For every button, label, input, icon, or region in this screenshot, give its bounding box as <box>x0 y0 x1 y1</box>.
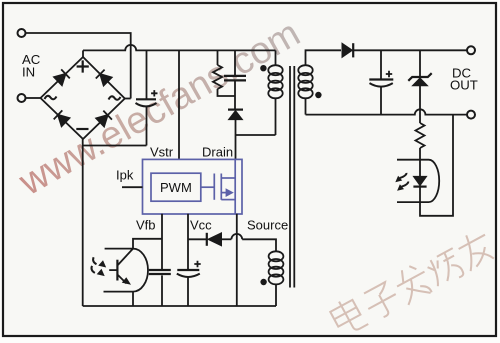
Vfb cap C4 plates <box>149 270 171 274</box>
Vcc pin wire <box>187 214 189 306</box>
plus sign in bridge <box>77 60 89 72</box>
snubber capacitor C2 plates <box>224 76 246 81</box>
wire cap C1 to return <box>146 106 148 146</box>
Source pin wire <box>236 214 238 306</box>
bridge diode D-TR <box>96 70 112 86</box>
opto LED housing <box>397 160 439 202</box>
PWM IC box U1 <box>143 159 243 214</box>
drain node wire to primary bottom <box>236 134 276 136</box>
bridge diode D-BL <box>54 110 70 126</box>
wire C3 to bottom rail <box>380 86 382 114</box>
Vcc cap C5 curved plate <box>177 274 200 277</box>
svg-text:PWM: PWM <box>160 180 192 195</box>
opto input light arrows <box>92 257 107 276</box>
emitter arrowhead <box>122 277 131 285</box>
wire hop to aux winding <box>242 239 276 252</box>
primary top wire <box>275 50 277 66</box>
wire top rail to zener <box>419 50 421 76</box>
stub top vertex to bus <box>82 50 84 57</box>
svg-text:IN: IN <box>22 65 35 80</box>
snubber resistor R1 zigzag <box>213 65 222 89</box>
opto transistor housing arc <box>104 249 149 292</box>
secondary polarity dot <box>315 92 321 98</box>
DC OUT terminal bottom <box>467 111 475 119</box>
svg-text:Vcc: Vcc <box>190 218 212 233</box>
svg-text:Ipk: Ipk <box>116 168 134 183</box>
bottom rail <box>83 305 276 307</box>
LED emission arrows <box>395 173 408 191</box>
plus sign C3 <box>386 71 392 77</box>
wire R2 to LED <box>419 148 421 176</box>
output cap C3 top plate <box>369 78 393 80</box>
plus sign C1 <box>151 90 157 96</box>
char zi <box>364 282 389 301</box>
secondary bottom wire <box>305 98 307 115</box>
Vcc diode D3 (pointing left) <box>207 233 222 246</box>
watermark 电子发烧友 (hand-drawn strokes) <box>328 225 497 339</box>
wire LED cathode loop <box>420 115 453 216</box>
opto collector wire to Vfb <box>133 239 162 249</box>
zener D4 <box>408 73 431 86</box>
Vcc diode D3 wire <box>188 238 206 240</box>
tilde left <box>45 96 57 99</box>
opto LED D6 <box>413 176 426 186</box>
wire bus to snubber cap <box>234 50 236 75</box>
tilde right <box>109 96 121 99</box>
wire bus to snubber R <box>217 50 219 65</box>
wire AC bottom to bridge <box>26 97 41 99</box>
primary polarity dot <box>260 65 266 71</box>
svg-text:Vfb: Vfb <box>136 218 156 233</box>
transformer secondary winding <box>298 65 312 98</box>
clamp diode D5 (pointing up) <box>228 110 243 120</box>
wire bus to bulk cap <box>146 50 148 98</box>
wire AC top to drop <box>26 33 131 99</box>
phototransistor Q2 base bar <box>116 260 118 281</box>
bulk capacitor C1 top plate <box>136 98 156 100</box>
wire D5 to drain node <box>235 120 237 135</box>
AC terminal top <box>18 29 26 37</box>
stub right vertex <box>125 98 131 100</box>
bridge diamond <box>41 57 125 139</box>
svg-text:Vstr: Vstr <box>150 145 174 160</box>
bridge diode D-TL <box>54 69 70 85</box>
transformer primary winding <box>268 65 282 98</box>
PWM inner box <box>151 173 201 201</box>
mosfet Q1 <box>201 159 235 213</box>
wire C2 to junction <box>234 81 236 108</box>
aux winding <box>269 251 284 284</box>
bulk capacitor C1 curved plate <box>136 103 157 106</box>
DC OUT terminal top <box>467 46 475 54</box>
char dian <box>330 300 360 327</box>
hop over Source wire <box>231 234 242 239</box>
wire top rail to C3 <box>380 50 382 78</box>
Vcc cap C5 top plate <box>177 269 199 271</box>
Vstr pin wire <box>178 50 180 159</box>
emitter diagonal <box>117 275 126 284</box>
char fa <box>397 272 424 287</box>
opto emitter wire to rail <box>132 292 134 306</box>
aux winding bottom wire <box>275 284 277 306</box>
return wire bridge to cap <box>83 145 147 147</box>
transformer core <box>290 66 294 288</box>
bridge diode D-BR <box>96 111 112 127</box>
base stub <box>109 269 117 271</box>
char you <box>459 235 485 249</box>
left rail down <box>82 139 84 306</box>
wire zener through rail hop to R2 <box>419 86 421 123</box>
wire R1 to junction <box>218 89 236 96</box>
mosfet arrow <box>226 188 234 197</box>
+ bus with hop over AC drop <box>83 45 276 50</box>
Vfb pin wire <box>161 214 163 306</box>
output rectifier D2 <box>342 43 467 57</box>
plus sign C5 <box>194 261 200 267</box>
secondary bottom rail with hop <box>306 109 467 114</box>
svg-text:OUT: OUT <box>450 78 478 93</box>
minus sign in bridge <box>76 128 88 130</box>
secondary top wire <box>306 50 342 66</box>
wire D3 to hop <box>222 238 232 240</box>
collector diagonal <box>117 249 133 266</box>
char shao <box>425 260 443 286</box>
svg-text:Source: Source <box>247 218 288 233</box>
aux polarity dot <box>260 279 266 285</box>
feedback resistor R2 zigzag <box>416 123 425 148</box>
svg-text:Drain: Drain <box>202 145 233 160</box>
output cap C3 curved plate <box>370 83 393 87</box>
Ipk stub wire <box>122 186 143 188</box>
AC terminal bottom <box>18 94 26 102</box>
drain pin wire <box>235 135 237 159</box>
primary bottom wire <box>275 98 277 136</box>
